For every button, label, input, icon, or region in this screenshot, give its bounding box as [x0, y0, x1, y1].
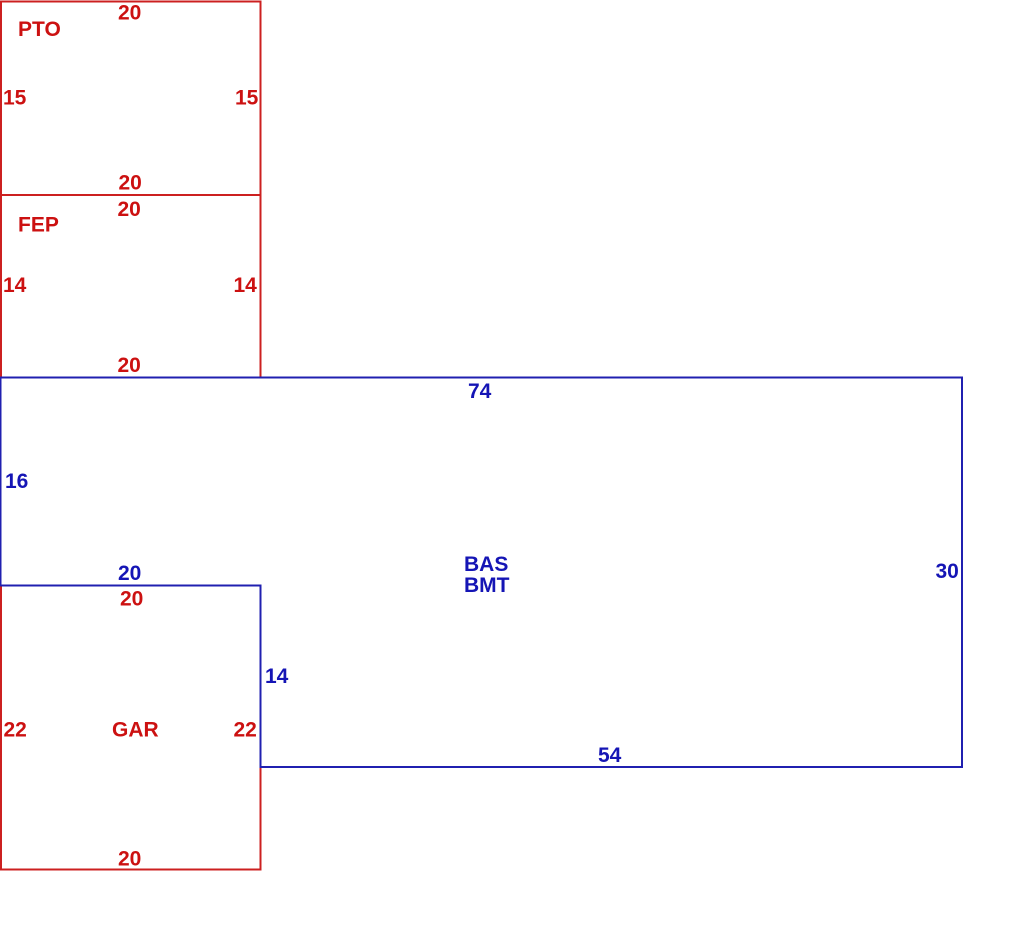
svg-text:54: 54 — [598, 744, 622, 767]
svg-text:20: 20 — [118, 848, 141, 871]
svg-text:20: 20 — [118, 2, 141, 25]
svg-text:20: 20 — [118, 198, 141, 221]
svg-text:BAS: BAS — [464, 553, 508, 576]
svg-text:FEP: FEP — [18, 214, 59, 237]
svg-text:20: 20 — [120, 588, 143, 611]
svg-text:22: 22 — [4, 719, 27, 742]
svg-text:16: 16 — [5, 470, 28, 493]
svg-text:22: 22 — [234, 719, 257, 742]
svg-text:15: 15 — [235, 87, 259, 110]
svg-text:14: 14 — [3, 274, 27, 297]
FEP room outline — [1, 195, 261, 378]
svg-text:20: 20 — [118, 354, 141, 377]
svg-text:BMT: BMT — [464, 574, 510, 597]
svg-text:14: 14 — [265, 665, 289, 688]
svg-text:GAR: GAR — [112, 719, 159, 742]
svg-text:20: 20 — [118, 562, 141, 585]
svg-text:PTO: PTO — [18, 18, 61, 41]
svg-text:30: 30 — [936, 560, 959, 583]
svg-text:74: 74 — [468, 380, 492, 403]
svg-text:20: 20 — [119, 172, 142, 195]
PTO room outline — [1, 2, 261, 196]
svg-text:15: 15 — [3, 87, 27, 110]
BAS/BMT room outline — [1, 378, 963, 768]
svg-text:14: 14 — [234, 274, 258, 297]
GAR room outline — [1, 586, 261, 870]
